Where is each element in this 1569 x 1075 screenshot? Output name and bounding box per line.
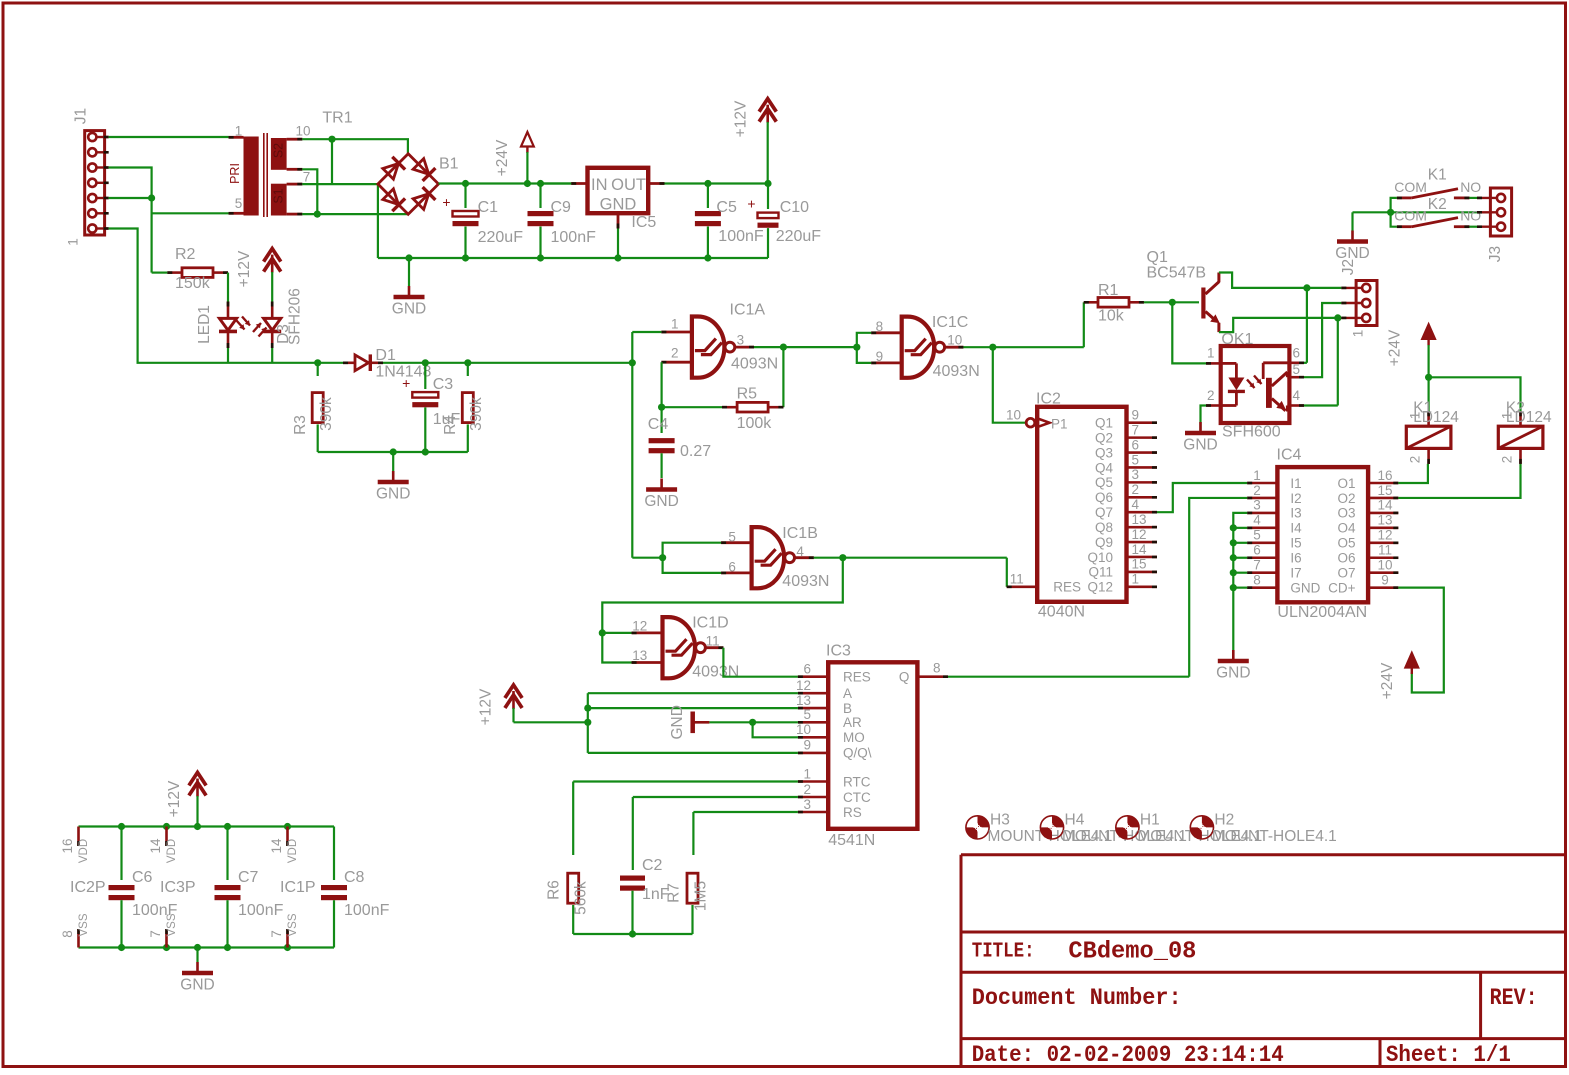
pin Q7 of IC2 [1127, 511, 1158, 514]
svg-text:+: + [402, 375, 410, 391]
wire to K2 COM [1391, 212, 1397, 226]
wire J1 pin1 to TR1 pin1 [109, 136, 229, 138]
svg-text:A: A [843, 686, 852, 701]
mount hole H1 [1116, 816, 1139, 839]
svg-text:13: 13 [796, 693, 811, 708]
wire A row [588, 692, 798, 694]
svg-text:O5: O5 [1337, 536, 1355, 551]
svg-text:+24V: +24V [1379, 662, 1396, 699]
svg-text:I6: I6 [1290, 551, 1301, 566]
svg-text:3: 3 [1253, 498, 1261, 513]
svg-text:Q9: Q9 [1095, 535, 1113, 550]
svg-text:7: 7 [303, 170, 311, 185]
wire junction down to S1 top row [331, 139, 333, 184]
node junction IC4 input gnd [1230, 554, 1237, 561]
svg-text:IC5: IC5 [631, 214, 656, 231]
wire IC1A pin1 from long vertical [632, 331, 661, 333]
svg-text:MOUNT-HOLE4.1: MOUNT-HOLE4.1 [1212, 828, 1337, 845]
svg-text:10: 10 [796, 722, 811, 737]
svg-text:5: 5 [1293, 362, 1301, 377]
pin O4 of IC4 [1368, 527, 1398, 530]
svg-text:CTC: CTC [843, 790, 871, 805]
svg-text:2: 2 [1207, 388, 1215, 403]
driver IC4 ULN2004AN box [1277, 467, 1368, 602]
pin RS of IC3 [798, 811, 828, 814]
svg-text:Q1: Q1 [1147, 249, 1168, 266]
nand gate IC1D [663, 617, 695, 678]
connector J2 [1356, 281, 1377, 326]
node junction C3 top [422, 359, 429, 366]
svg-text:IC2: IC2 [1036, 391, 1061, 408]
svg-text:13: 13 [1377, 513, 1392, 528]
svg-text:100nF: 100nF [344, 902, 390, 919]
diode LED1 [227, 302, 230, 318]
supply +12V arrow top [759, 99, 776, 112]
svg-text:GND: GND [392, 301, 426, 318]
node junction rail bottom [224, 944, 231, 951]
wire K2 NO to J3 pin3 [1469, 226, 1477, 228]
svg-text:ULN2004AN: ULN2004AN [1277, 604, 1367, 621]
svg-text:GND: GND [180, 977, 214, 994]
title block frame [961, 855, 1565, 1066]
svg-text:Q8: Q8 [1095, 520, 1113, 535]
wire IC1B output right [814, 557, 1007, 559]
svg-text:15: 15 [1377, 483, 1392, 498]
wire vertical A-B-AR-Q/Q [587, 693, 589, 753]
svg-text:14: 14 [1132, 542, 1148, 557]
svg-text:TITLE:: TITLE: [972, 941, 1035, 964]
node junction +24V coils [1425, 374, 1432, 381]
wire R6 C2 R7 bottom [573, 933, 692, 935]
svg-text:R6: R6 [546, 880, 563, 900]
wire OK1 pin2 to ground [1201, 406, 1207, 431]
pin Q11 of IC2 [1127, 571, 1158, 574]
svg-text:1: 1 [671, 317, 679, 332]
pin Q9 of IC2 [1127, 541, 1158, 544]
voltage regulator IC5 [588, 168, 649, 213]
svg-text:1M5: 1M5 [693, 881, 710, 911]
node junction rail top [224, 823, 231, 830]
wire IC4 CD+ to +24V [1398, 588, 1444, 693]
svg-text:6: 6 [1132, 437, 1140, 452]
wire MO branch [753, 722, 798, 737]
wire S1 bottom to B1 bottom [302, 213, 408, 215]
nand gate IC1C [902, 317, 934, 378]
svg-text:R2: R2 [175, 246, 196, 263]
optocoupler OK1 box [1221, 346, 1290, 423]
svg-text:7: 7 [1253, 558, 1261, 573]
pin RTC of IC3 [798, 780, 828, 783]
resistor R7 [692, 812, 694, 855]
pin Q12 of IC2 [1127, 586, 1158, 589]
svg-text:IC1A: IC1A [730, 302, 766, 319]
resistor R3 [317, 363, 319, 376]
svg-text:J1: J1 [73, 108, 90, 124]
ground GND OK1 [1199, 422, 1202, 433]
svg-text:C6: C6 [132, 869, 153, 886]
svg-text:6: 6 [803, 662, 811, 677]
pin Q6 of IC2 [1127, 496, 1158, 499]
wire IC5 IN from rail [541, 182, 572, 184]
node junction IC1B inputs [659, 554, 666, 561]
svg-text:11: 11 [706, 633, 720, 648]
node junction C10 top [764, 180, 771, 187]
svg-text:1: 1 [66, 238, 81, 246]
capacitor C10 [767, 184, 769, 210]
svg-text:13: 13 [632, 648, 647, 663]
wire +12V to A/B/AR [514, 721, 588, 723]
svg-text:R3: R3 [292, 415, 309, 435]
node junction IC1D pin12 [599, 629, 606, 636]
svg-text:1: 1 [1351, 330, 1366, 338]
svg-text:+12V: +12V [478, 688, 495, 725]
wire to K1 COM [1391, 198, 1397, 212]
node junction C9 bottom [537, 254, 544, 261]
wire K-contacts common [1353, 211, 1391, 213]
svg-text:RES: RES [1053, 580, 1081, 595]
svg-text:O2: O2 [1337, 491, 1355, 506]
svg-text:11: 11 [1010, 572, 1024, 587]
svg-text:1: 1 [1500, 412, 1515, 420]
OK1 light arrows [1247, 380, 1255, 389]
wire CTC row [633, 796, 798, 798]
wire down-around to IC1D inputs [602, 558, 843, 663]
svg-text:Date: 02-02-2009 23:14:14: Date: 02-02-2009 23:14:14 [972, 1042, 1284, 1068]
pin Q5 of IC2 [1127, 481, 1158, 484]
connector J1 [85, 131, 105, 235]
diode bridge B1 [378, 154, 439, 215]
svg-text:IN: IN [591, 176, 608, 194]
node junction IC4 input gnd [1230, 569, 1237, 576]
svg-text:100nF: 100nF [238, 902, 284, 919]
svg-text:4093N: 4093N [692, 664, 739, 681]
wire J1 pin3 down to pin5 node [109, 168, 152, 199]
svg-text:Q: Q [899, 670, 910, 685]
svg-text:RS: RS [843, 805, 862, 820]
node junction Q1 base / OK1 [1169, 299, 1176, 306]
svg-text:O3: O3 [1337, 506, 1355, 521]
pin 2 of OK1 [1206, 404, 1221, 407]
pin CD+ of IC4 [1368, 586, 1398, 589]
svg-text:Q1: Q1 [1095, 416, 1113, 431]
svg-text:10: 10 [1377, 558, 1392, 573]
resistor R4 [467, 363, 469, 376]
ground GND power block [196, 948, 198, 963]
node junction B row [584, 705, 591, 712]
mount hole H3 [966, 816, 989, 839]
svg-text:8: 8 [1253, 572, 1261, 587]
wire long vertical corner to IC1B node [632, 557, 662, 559]
nand gate IC1B [752, 527, 784, 588]
svg-text:VSS: VSS [287, 913, 299, 936]
resistor R5 [662, 406, 722, 408]
pin Q of IC3 [917, 675, 948, 678]
svg-text:4: 4 [1293, 388, 1301, 403]
node junction R5/C4 [658, 404, 665, 411]
pin O5 of IC4 [1368, 541, 1398, 544]
svg-text:7: 7 [1132, 422, 1140, 437]
svg-text:15: 15 [1132, 557, 1147, 572]
svg-text:GND: GND [1216, 665, 1250, 682]
svg-text:PRI: PRI [228, 163, 242, 184]
svg-text:C9: C9 [551, 199, 572, 216]
pin I2 of IC4 [1247, 497, 1277, 500]
node junction GND stem [405, 254, 412, 261]
wire Q1 emitter to J2 pin3 [1219, 318, 1342, 332]
node junction C5 bottom [704, 254, 711, 261]
ground GND sideways at AR [690, 712, 695, 734]
svg-text:7: 7 [148, 930, 163, 938]
svg-text:GND: GND [600, 196, 637, 214]
node junction IC1B out [839, 554, 846, 561]
timer IC3 4541N box [828, 662, 917, 829]
node junction rail bottom [118, 944, 125, 951]
svg-text:NO: NO [1460, 179, 1481, 195]
wire IC2 Q7 to IC4 I1 [1157, 483, 1247, 512]
svg-text:Sheet: 1/1: Sheet: 1/1 [1386, 1042, 1511, 1068]
svg-text:VDD: VDD [287, 839, 299, 863]
wire RTC row [573, 780, 798, 782]
wire IC3 Q to IC4 I2 [1189, 498, 1247, 677]
node junction IC4 input gnd [1230, 584, 1237, 591]
svg-text:100k: 100k [737, 415, 773, 432]
node junction IC1A out [780, 344, 787, 351]
wire B row [588, 707, 798, 709]
svg-text:390k: 390k [318, 397, 335, 431]
svg-text:K1: K1 [1428, 166, 1447, 183]
svg-text:+: + [442, 194, 450, 210]
clock pin P1 of IC2 [1026, 418, 1035, 427]
pin I6 of IC4 [1247, 556, 1277, 559]
svg-text:9: 9 [1132, 408, 1140, 423]
wire IC1C out right [963, 346, 1083, 348]
svg-text:5: 5 [1253, 528, 1261, 543]
pin O3 of IC4 [1368, 512, 1398, 515]
svg-text:P1: P1 [1051, 416, 1068, 431]
svg-text:O6: O6 [1337, 551, 1355, 566]
svg-text:R1: R1 [1098, 282, 1119, 299]
svg-text:10k: 10k [1098, 308, 1125, 325]
wire +24V to K2 coil pin1 [1429, 377, 1521, 411]
counter IC2 4040N box [1037, 407, 1126, 602]
light arrows D3 [253, 323, 261, 332]
node junction IC1C out [989, 344, 996, 351]
svg-text:2: 2 [1500, 456, 1515, 464]
node junction rail top [194, 823, 201, 830]
svg-text:150k: 150k [175, 275, 211, 292]
wire OK1 pin4 connect [1304, 404, 1338, 406]
svg-text:C8: C8 [344, 869, 365, 886]
node junction rail top [118, 823, 125, 830]
svg-text:12: 12 [632, 619, 647, 634]
wire feedback down to R5 [782, 347, 784, 407]
wire Q1 collector to J2 pin1 [1219, 273, 1342, 288]
relay coil K2 LD124 [1519, 411, 1522, 426]
wire Q/Q row [588, 752, 798, 754]
wire power rail top [79, 825, 335, 827]
svg-text:6: 6 [1253, 543, 1261, 558]
pin I4 of IC4 [1247, 527, 1277, 530]
svg-text:Q4: Q4 [1095, 460, 1114, 475]
wire IC5 OUT to right [665, 182, 769, 184]
svg-text:4093N: 4093N [933, 363, 980, 380]
svg-text:REV:: REV: [1490, 985, 1538, 1011]
node junction C1 bottom [462, 254, 469, 261]
svg-text:C2: C2 [642, 857, 663, 874]
svg-text:AR: AR [843, 715, 862, 730]
svg-text:I3: I3 [1290, 506, 1301, 521]
mount hole H2 [1190, 816, 1213, 839]
nand gate IC1A [692, 317, 725, 378]
pin I3 of IC4 [1247, 512, 1277, 515]
pin O7 of IC4 [1368, 571, 1398, 574]
node junction IC1C inputs [853, 344, 860, 351]
svg-text:4: 4 [796, 544, 804, 559]
pin GND of IC4 [1247, 586, 1277, 589]
pin Q/Q\ of IC3 [798, 752, 828, 755]
node junction S1 bottom [314, 211, 321, 218]
svg-text:GND: GND [1290, 580, 1320, 595]
wire down to OK1 pin6 [1306, 288, 1308, 363]
svg-text:220uF: 220uF [478, 229, 524, 246]
capacitor C9 [539, 184, 541, 209]
svg-text:Q2: Q2 [1095, 430, 1113, 445]
node junction D3 bottom [314, 359, 321, 366]
supply +12V arrow power block [189, 773, 206, 786]
ground GND C4 [660, 479, 663, 490]
svg-text:3: 3 [737, 333, 745, 348]
svg-text:MO: MO [843, 730, 865, 745]
svg-text:7: 7 [269, 930, 284, 938]
svg-text:IC1D: IC1D [692, 614, 728, 631]
svg-text:NO: NO [1460, 208, 1481, 224]
svg-text:220uF: 220uF [776, 228, 822, 245]
svg-text:C3: C3 [433, 376, 454, 393]
power pins IC3P [165, 827, 168, 847]
svg-text:2: 2 [1132, 482, 1140, 497]
svg-text:Q12: Q12 [1087, 580, 1113, 595]
node junction C1 top [462, 180, 469, 187]
svg-text:H3: H3 [990, 812, 1010, 829]
svg-text:COM: COM [1394, 208, 1427, 224]
capacitor C5 [707, 184, 709, 209]
wire R1 to Q1 base [1144, 301, 1199, 303]
svg-text:J3: J3 [1487, 246, 1504, 262]
pin O6 of IC4 [1368, 556, 1398, 559]
svg-text:GND: GND [644, 493, 678, 510]
svg-text:6: 6 [1293, 346, 1301, 361]
transformer TR1 secondary S1 [271, 184, 287, 216]
svg-text:12: 12 [1377, 528, 1392, 543]
svg-text:B1: B1 [439, 156, 459, 173]
svg-text:IC3: IC3 [826, 643, 851, 660]
svg-text:GND: GND [376, 486, 410, 503]
node junction rail bottom [284, 944, 291, 951]
svg-text:9: 9 [1381, 572, 1389, 587]
capacitor C3 [424, 363, 426, 389]
wire IC4 O1 to K1 coil [1398, 464, 1428, 483]
svg-text:12: 12 [1132, 527, 1147, 542]
wire D1 to C3/R4 nodes and IC1 vertical [383, 362, 632, 364]
svg-text:13: 13 [1132, 512, 1147, 527]
mount hole H4 [1040, 816, 1063, 839]
capacitor C8 [333, 827, 335, 881]
wire J1 pin5 to junction [109, 197, 152, 199]
relay contact K2 [1397, 225, 1412, 228]
svg-text:Q6: Q6 [1095, 490, 1113, 505]
svg-text:8: 8 [60, 930, 75, 938]
svg-text:+12V: +12V [166, 780, 183, 817]
transformer TR1 secondary S2 [271, 138, 287, 170]
svg-text:10: 10 [1006, 408, 1021, 423]
pin RES of IC2 [1007, 585, 1037, 588]
svg-text:3: 3 [803, 797, 811, 812]
wire IC1D out down to IC3 RES [723, 648, 798, 677]
node junction GND R3R4 [390, 448, 397, 455]
node junction IC4 input gnd [1230, 539, 1237, 546]
svg-text:O1: O1 [1337, 476, 1355, 491]
svg-text:1: 1 [235, 123, 243, 138]
svg-text:S2: S2 [272, 143, 286, 158]
svg-text:10: 10 [947, 333, 962, 348]
wire COM row to J3 pin2 [1391, 211, 1477, 213]
wire TR1 pin7 down to S1 bottom [302, 169, 317, 214]
pin AR of IC3 [798, 721, 828, 724]
svg-text:4040N: 4040N [1038, 604, 1085, 621]
wire IC1C input branches [857, 333, 871, 363]
svg-text:IC3P: IC3P [160, 879, 196, 896]
svg-text:H2: H2 [1214, 812, 1234, 829]
svg-text:5: 5 [235, 196, 243, 211]
svg-text:BC547B: BC547B [1147, 265, 1207, 282]
svg-text:4093N: 4093N [782, 573, 829, 590]
wire B1 right to IC5 IN (top rail) [439, 182, 572, 184]
ground GND IC4 inputs [1232, 650, 1235, 661]
svg-text:C4: C4 [648, 416, 669, 433]
svg-text:CBdemo_08: CBdemo_08 [1068, 939, 1196, 966]
svg-text:+12V: +12V [733, 100, 750, 137]
svg-text:I2: I2 [1290, 491, 1301, 506]
wire IC4 grounded inputs column [1233, 513, 1247, 651]
svg-text:2: 2 [1253, 483, 1261, 498]
wire D3 bottom to D1 node [228, 362, 318, 364]
svg-text:GND: GND [1183, 437, 1217, 454]
svg-text:TR1: TR1 [322, 110, 352, 127]
wire +24V to K1 coil pin1 [1427, 377, 1429, 411]
wire node to D1 [318, 362, 343, 364]
node junction J2 pin3 / OK1 pin4 [1334, 314, 1341, 321]
svg-text:H1: H1 [1140, 812, 1160, 829]
connector J3 [1490, 188, 1511, 236]
svg-text:100nF: 100nF [551, 229, 597, 246]
wire power rail bottom [79, 946, 335, 948]
transformer TR1 core [263, 133, 265, 217]
svg-text:1: 1 [1253, 468, 1261, 483]
wire IC1B input branches [663, 543, 722, 573]
wire B1 left corner down to ground rail [377, 184, 379, 258]
svg-text:K2: K2 [1428, 196, 1447, 213]
node junction K1/K2 COM [1387, 209, 1394, 216]
wire down to OK1 pin4 [1337, 318, 1339, 406]
svg-text:4: 4 [1253, 513, 1261, 528]
power pins IC1P [286, 827, 289, 847]
node junction C5 top [704, 180, 711, 187]
svg-text:IC1C: IC1C [932, 314, 968, 331]
svg-text:1: 1 [803, 766, 811, 781]
wire IC1B out to IC2 RES [1006, 558, 1008, 587]
svg-text:9: 9 [876, 349, 884, 364]
svg-text:H4: H4 [1065, 812, 1085, 829]
